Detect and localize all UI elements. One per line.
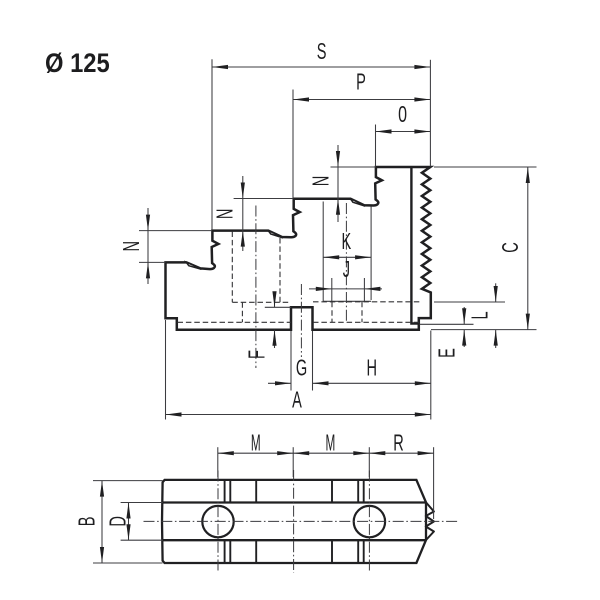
- centerline horizontal plan: [144, 520, 458, 522]
- hole bottom line: [323, 300, 371, 302]
- svg-text:G: G: [296, 355, 307, 381]
- svg-text:H: H: [367, 355, 378, 381]
- S/P/O right extension: [429, 60, 431, 167]
- plan line x256: [255, 480, 257, 563]
- A/H right extension: [430, 331, 432, 420]
- plan dimension thin lines: [93, 447, 434, 563]
- C arrows: [526, 167, 530, 183]
- C dimension line: [527, 167, 529, 330]
- svg-text:C: C: [497, 242, 523, 253]
- jaw body outline: [166, 167, 431, 330]
- B ext lines: [93, 480, 163, 482]
- S left extension: [211, 59, 213, 230]
- N1 extensions: [139, 230, 212, 232]
- N2 extension: [234, 198, 294, 200]
- centerline hole2 plan: [368, 471, 370, 573]
- hidden vertical small: [241, 302, 243, 322]
- svg-text:N: N: [212, 209, 238, 220]
- centerline G slot: [300, 284, 302, 357]
- C bottom extension: [431, 329, 537, 331]
- M span1 arrows: [218, 451, 234, 455]
- B arrows: [100, 481, 104, 497]
- chamfer slot step3: [350, 199, 365, 207]
- hidden vertical right 1: [331, 302, 333, 323]
- H dimension line: [313, 382, 431, 384]
- hidden horizontal right upper: [313, 301, 422, 303]
- E arrows outside: [462, 308, 466, 324]
- plan line x332: [331, 480, 333, 563]
- hole circle right: [354, 506, 385, 537]
- hidden horizontal left upper: [232, 301, 291, 303]
- plan arrows: [100, 451, 434, 563]
- M ext 3: [368, 447, 370, 477]
- E top extension: [420, 323, 474, 325]
- plan tip serration: [426, 502, 434, 540]
- S arrows: [212, 65, 228, 69]
- O arrows: [376, 129, 392, 133]
- hidden horizontal right lower: [313, 321, 422, 323]
- centerline hole1 plan: [217, 471, 219, 573]
- L arrows outside: [494, 286, 498, 302]
- thin solid lines: [139, 59, 537, 419]
- R right ext: [433, 447, 435, 519]
- F arrows outside: [272, 291, 276, 307]
- svg-text:Ø 125: Ø 125: [45, 48, 110, 78]
- F extension: [265, 306, 291, 308]
- svg-text:M: M: [251, 429, 261, 456]
- O dimension line: [376, 131, 431, 133]
- B dimension line: [101, 481, 103, 563]
- dashed hidden lines: [178, 232, 423, 323]
- svg-text:E: E: [434, 348, 460, 358]
- K dimension line: [323, 256, 371, 258]
- svg-text:S: S: [317, 39, 327, 65]
- N3 dimension line: [337, 145, 339, 222]
- R arrows: [369, 451, 385, 455]
- svg-text:M: M: [326, 429, 336, 456]
- M ext 2: [292, 447, 294, 477]
- svg-text:N: N: [308, 176, 334, 187]
- centerlines side view: [256, 203, 347, 368]
- svg-text:0: 0: [398, 102, 407, 128]
- centerline hole2 K/J: [345, 203, 347, 321]
- N2 dimension line: [242, 176, 244, 251]
- svg-text:A: A: [292, 387, 302, 413]
- plan band line bottom: [162, 539, 426, 541]
- P dimension line: [293, 99, 430, 101]
- plan band line top: [162, 501, 426, 503]
- svg-text:F: F: [244, 350, 270, 359]
- svg-text:N: N: [118, 241, 144, 252]
- svg-text:P: P: [356, 69, 366, 95]
- P arrows: [293, 97, 309, 101]
- J arrows outside: [316, 287, 332, 291]
- D ext lines: [121, 502, 163, 504]
- plan slot lines pair left: [224, 480, 226, 563]
- C top extension: [434, 166, 537, 168]
- A dimension line: [166, 414, 431, 416]
- J extension lines: [331, 278, 333, 301]
- hidden vertical mid-left: [279, 238, 281, 302]
- S dimension line: [212, 66, 430, 68]
- hole circle left: [202, 506, 233, 537]
- plan outline: [162, 480, 426, 563]
- F dimension line segments: [274, 292, 276, 308]
- svg-text:B: B: [74, 517, 100, 527]
- svg-text:K: K: [342, 229, 352, 255]
- L top extension: [434, 301, 505, 303]
- chamfer slot step2: [268, 230, 283, 238]
- plan slot lines pair right: [357, 480, 359, 563]
- svg-text:J: J: [343, 257, 350, 283]
- J dimension line: [309, 288, 382, 290]
- N3 arrows: [336, 151, 340, 167]
- centerline mid plan: [293, 470, 295, 573]
- L dimension line segments: [495, 283, 497, 302]
- G arrows outside: [275, 381, 291, 385]
- D dimension line: [128, 503, 130, 541]
- svg-text:D: D: [105, 516, 131, 527]
- N1 dimension line: [147, 208, 149, 284]
- K extension lines: [322, 202, 324, 302]
- M/R dimension line: [218, 452, 434, 454]
- plan centerlines: [144, 470, 458, 573]
- A arrows: [166, 412, 182, 416]
- hidden horizontal left lower: [178, 321, 292, 323]
- svg-text:R: R: [393, 430, 404, 456]
- A left extension: [165, 320, 167, 420]
- K arrows: [323, 255, 339, 259]
- O left extension: [375, 125, 377, 167]
- G extension lines: [290, 331, 292, 391]
- G left dimension segment: [268, 382, 291, 384]
- svg-text:L: L: [467, 311, 493, 319]
- inner edge right face: [411, 167, 418, 324]
- H right arrow: [415, 381, 431, 385]
- M ext 1: [217, 447, 219, 477]
- N3 extension: [331, 166, 376, 168]
- hidden vertical right 2: [361, 302, 363, 323]
- N1 arrows: [146, 215, 150, 231]
- D arrows: [126, 503, 130, 519]
- E dimension line segments: [463, 307, 465, 324]
- M span2 arrows: [293, 451, 309, 455]
- centerline hole1: [255, 206, 257, 369]
- P left extension: [292, 90, 294, 199]
- N2 arrows: [241, 183, 245, 199]
- hidden vertical left: [231, 232, 233, 303]
- chamfer slot step1: [186, 262, 201, 269]
